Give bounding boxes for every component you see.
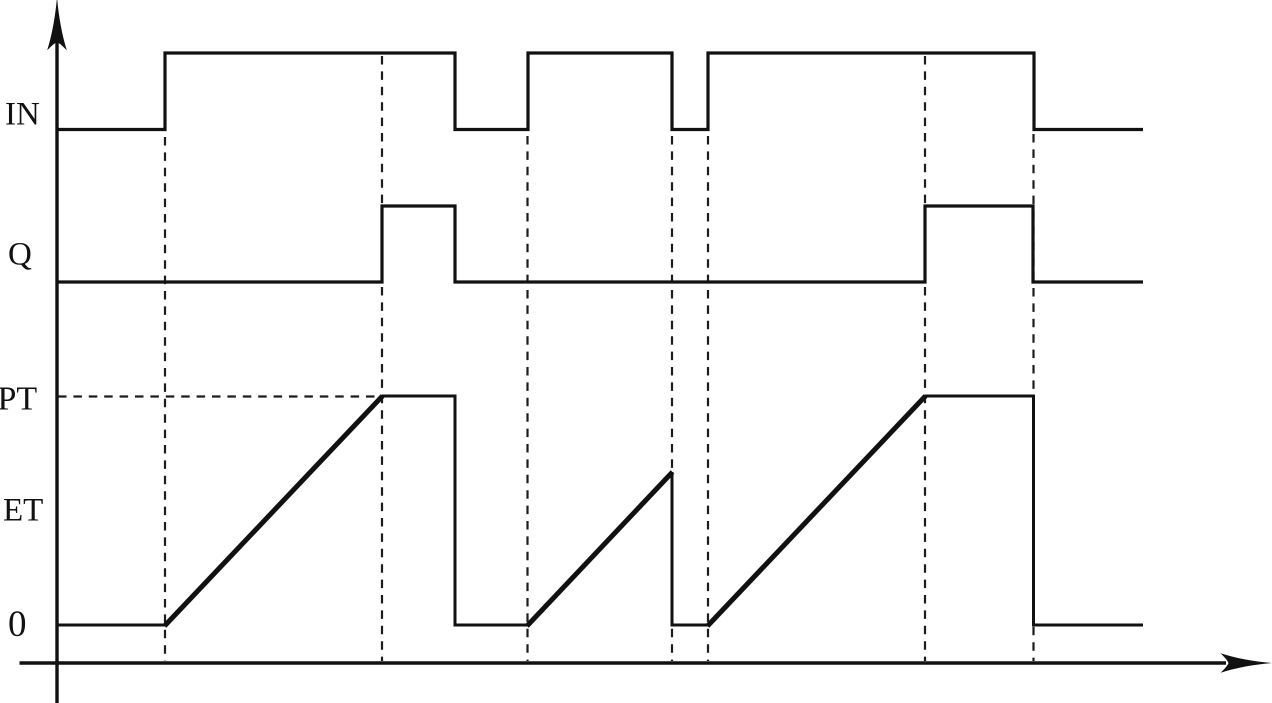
svg-text:IN: IN	[5, 97, 40, 133]
svg-text:0: 0	[8, 604, 27, 645]
svg-text:PT: PT	[0, 381, 37, 418]
svg-text:Q: Q	[8, 237, 32, 273]
svg-text:ET: ET	[3, 493, 43, 529]
